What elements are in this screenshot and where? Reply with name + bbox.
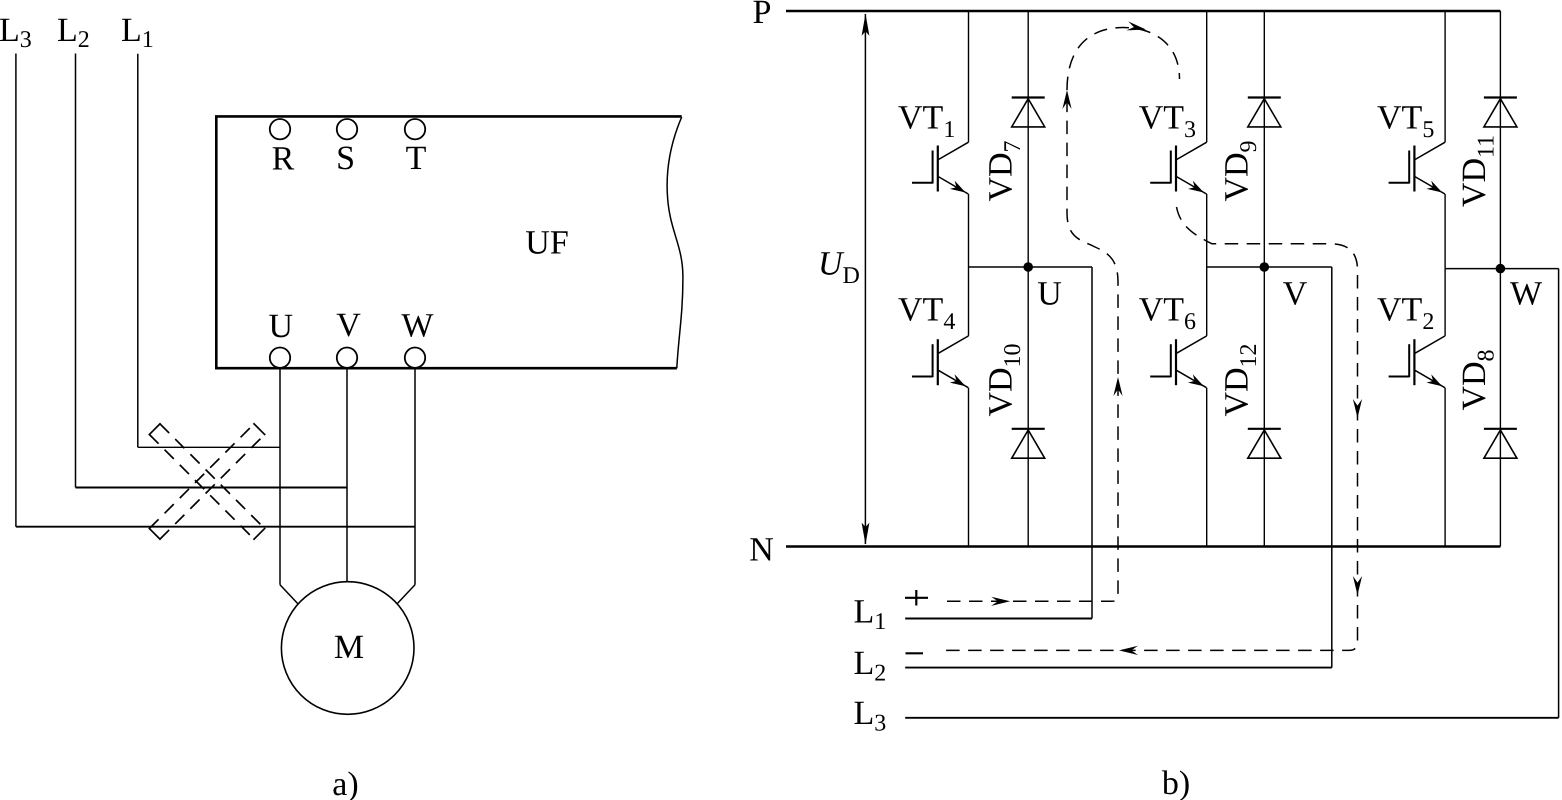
svg-text:V: V: [1283, 276, 1308, 313]
svg-text:U: U: [818, 246, 845, 283]
svg-text:T: T: [406, 140, 427, 177]
svg-text:D: D: [843, 263, 860, 289]
svg-text:a): a): [332, 766, 358, 800]
svg-text:U: U: [1037, 276, 1062, 313]
svg-text:N: N: [749, 532, 774, 569]
svg-text:V: V: [336, 307, 361, 344]
svg-text:M: M: [334, 629, 364, 666]
svg-text:UF: UF: [525, 225, 568, 262]
svg-text:W: W: [401, 308, 434, 345]
svg-text:U: U: [269, 308, 294, 345]
svg-text:R: R: [272, 141, 295, 178]
svg-text:P: P: [753, 0, 772, 31]
svg-text:S: S: [336, 140, 355, 177]
svg-text:b): b): [1162, 765, 1190, 800]
svg-text:W: W: [1510, 276, 1543, 313]
